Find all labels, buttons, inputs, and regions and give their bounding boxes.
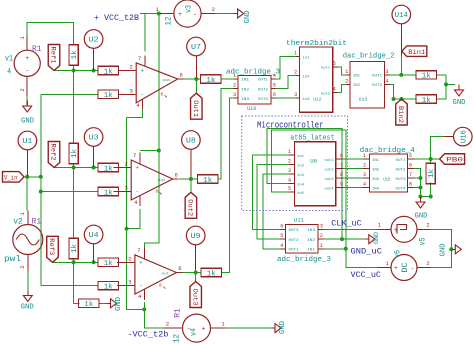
svg-text:out: out bbox=[163, 79, 171, 83]
svg-text:1k: 1k bbox=[203, 177, 212, 185]
svg-text:R1: R1 bbox=[174, 308, 183, 318]
svg-text:1k: 1k bbox=[206, 77, 215, 85]
svg-text:3: 3 bbox=[130, 87, 133, 94]
svg-text:1k: 1k bbox=[71, 244, 79, 253]
svg-text:Bin1: Bin1 bbox=[408, 49, 425, 57]
svg-text:U7: U7 bbox=[191, 44, 201, 52]
svg-text:8: 8 bbox=[340, 172, 343, 178]
svg-text:R1: R1 bbox=[32, 218, 42, 227]
svg-text:R1: R1 bbox=[32, 45, 42, 54]
svg-text:OUT2: OUT2 bbox=[396, 168, 406, 172]
svg-text:GND_uC: GND_uC bbox=[351, 247, 383, 257]
svg-text:5: 5 bbox=[288, 186, 291, 192]
svg-text:IN2: IN2 bbox=[372, 168, 379, 172]
svg-text:9: 9 bbox=[340, 182, 343, 188]
svg-text:Ref2: Ref2 bbox=[49, 144, 57, 161]
svg-text:6: 6 bbox=[280, 223, 283, 229]
svg-text:OUT3: OUT3 bbox=[258, 98, 268, 102]
svg-text:out: out bbox=[158, 179, 166, 183]
svg-text:Ref3: Ref3 bbox=[47, 238, 55, 255]
svg-text:1: 1 bbox=[294, 51, 297, 57]
svg-text:-VCC_t2b: -VCC_t2b bbox=[127, 330, 168, 340]
svg-text:U11: U11 bbox=[294, 217, 305, 224]
svg-text:1: 1 bbox=[320, 243, 323, 249]
svg-text:IN1: IN1 bbox=[307, 249, 315, 253]
svg-text:Out3: Out3 bbox=[190, 289, 198, 306]
svg-text:out1: out1 bbox=[321, 67, 330, 71]
svg-text:3: 3 bbox=[288, 168, 291, 174]
svg-text:U6: U6 bbox=[310, 159, 317, 165]
svg-text:2: 2 bbox=[426, 260, 429, 267]
svg-text:1k: 1k bbox=[422, 97, 431, 105]
svg-text:GND: GND bbox=[415, 213, 428, 221]
svg-text:OUT4: OUT4 bbox=[396, 187, 406, 191]
svg-text:1k: 1k bbox=[422, 73, 431, 81]
svg-text:-: - bbox=[140, 91, 144, 98]
svg-text:OUT3: OUT3 bbox=[289, 229, 299, 233]
svg-text:+: + bbox=[135, 165, 139, 172]
svg-text:2: 2 bbox=[345, 78, 348, 84]
svg-text:3: 3 bbox=[363, 172, 366, 178]
svg-text:GND: GND bbox=[21, 304, 34, 312]
svg-text:v4: v4 bbox=[189, 328, 198, 336]
svg-text:PB0: PB0 bbox=[446, 157, 463, 165]
svg-text:1: 1 bbox=[288, 149, 291, 155]
svg-text:-: - bbox=[135, 189, 139, 196]
svg-text:4: 4 bbox=[7, 67, 11, 76]
svg-text:v5: v5 bbox=[418, 237, 427, 245]
svg-text:5: 5 bbox=[273, 83, 276, 89]
svg-text:IN1: IN1 bbox=[353, 75, 360, 79]
svg-text:2: 2 bbox=[19, 265, 26, 268]
svg-text:7: 7 bbox=[340, 163, 343, 169]
svg-text:1: 1 bbox=[233, 73, 236, 79]
svg-text:IN3: IN3 bbox=[307, 229, 315, 233]
svg-text:U15: U15 bbox=[383, 177, 391, 183]
svg-text:4: 4 bbox=[385, 78, 388, 84]
svg-text:8: 8 bbox=[409, 182, 412, 188]
svg-text:OUT1: OUT1 bbox=[372, 75, 382, 79]
svg-text:1: 1 bbox=[345, 69, 348, 75]
svg-text:2: 2 bbox=[320, 233, 323, 239]
svg-text:+ VCC_t2B: + VCC_t2B bbox=[94, 13, 139, 23]
svg-text:out1: out1 bbox=[325, 159, 334, 163]
svg-text:in5: in5 bbox=[297, 191, 304, 196]
svg-text:out2: out2 bbox=[321, 92, 330, 96]
svg-text:12: 12 bbox=[165, 16, 174, 25]
svg-text:GND: GND bbox=[440, 244, 448, 257]
svg-text:4: 4 bbox=[333, 87, 336, 93]
svg-text:out2: out2 bbox=[325, 168, 334, 172]
svg-text:12: 12 bbox=[173, 334, 182, 343]
svg-text:2: 2 bbox=[166, 321, 169, 328]
svg-text:U12: U12 bbox=[313, 99, 322, 103]
svg-text:GND: GND bbox=[453, 99, 466, 107]
svg-text:Bin2: Bin2 bbox=[396, 106, 404, 123]
svg-text:4: 4 bbox=[280, 243, 283, 249]
svg-text:+: + bbox=[25, 55, 29, 62]
svg-text:4: 4 bbox=[363, 182, 366, 188]
svg-text:7: 7 bbox=[409, 172, 412, 178]
svg-text:+: + bbox=[139, 260, 143, 267]
svg-text:7: 7 bbox=[133, 152, 136, 159]
svg-text:adc_bridge_3: adc_bridge_3 bbox=[277, 256, 331, 264]
svg-text:U3: U3 bbox=[89, 135, 100, 143]
svg-text:3: 3 bbox=[128, 279, 131, 286]
svg-text:in2: in2 bbox=[303, 74, 310, 79]
svg-text:2: 2 bbox=[212, 6, 215, 13]
svg-text:-: - bbox=[139, 283, 143, 290]
svg-text:1k: 1k bbox=[104, 260, 113, 268]
svg-text:U13: U13 bbox=[359, 96, 368, 102]
svg-text:1k: 1k bbox=[104, 92, 113, 100]
svg-text:GND: GND bbox=[244, 11, 252, 24]
svg-text:5: 5 bbox=[280, 233, 283, 239]
svg-text:+: + bbox=[178, 11, 182, 18]
svg-text:1k: 1k bbox=[104, 68, 113, 76]
svg-text:IN2: IN2 bbox=[241, 88, 249, 92]
svg-text:VCC_uC: VCC_uC bbox=[351, 270, 382, 280]
svg-text:5: 5 bbox=[409, 153, 412, 159]
svg-text:3: 3 bbox=[385, 69, 388, 75]
svg-text:OUT2: OUT2 bbox=[258, 88, 268, 92]
svg-text:Out2: Out2 bbox=[185, 199, 193, 216]
svg-text:Ref1: Ref1 bbox=[49, 47, 57, 64]
svg-text:2: 2 bbox=[128, 255, 131, 262]
svg-text:2: 2 bbox=[233, 83, 236, 89]
svg-text:IN3: IN3 bbox=[372, 178, 379, 182]
svg-text:CLK_uC: CLK_uC bbox=[331, 219, 362, 229]
svg-text:v2: v2 bbox=[13, 218, 23, 227]
svg-text:OUT1: OUT1 bbox=[258, 79, 268, 83]
svg-text:GND: GND bbox=[21, 118, 34, 126]
svg-text:Out1: Out1 bbox=[191, 100, 199, 117]
svg-text:in1: in1 bbox=[297, 154, 304, 159]
svg-text:3: 3 bbox=[320, 223, 323, 229]
svg-text:V_in: V_in bbox=[4, 174, 18, 182]
svg-text:in3: in3 bbox=[297, 173, 304, 178]
svg-text:1k: 1k bbox=[71, 50, 79, 59]
svg-text:out4: out4 bbox=[325, 187, 334, 191]
svg-text:-: - bbox=[25, 68, 29, 75]
svg-text:DC: DC bbox=[401, 262, 410, 272]
svg-text:IN1: IN1 bbox=[372, 159, 379, 163]
svg-text:U1: U1 bbox=[22, 138, 33, 146]
svg-text:U14: U14 bbox=[395, 12, 408, 20]
svg-text:1k: 1k bbox=[71, 149, 79, 158]
svg-text:7: 7 bbox=[138, 55, 141, 62]
svg-text:IN2: IN2 bbox=[307, 239, 315, 243]
svg-text:2: 2 bbox=[19, 88, 26, 91]
svg-text:2: 2 bbox=[130, 63, 133, 70]
svg-text:U10: U10 bbox=[247, 105, 256, 112]
svg-text:GND: GND bbox=[373, 232, 380, 244]
svg-text:OUT3: OUT3 bbox=[396, 178, 406, 182]
svg-text:U2: U2 bbox=[89, 37, 99, 45]
svg-text:in1: in1 bbox=[303, 55, 310, 60]
svg-text:4: 4 bbox=[288, 178, 291, 184]
svg-text:out: out bbox=[161, 273, 169, 277]
svg-text:v1: v1 bbox=[5, 55, 13, 64]
svg-text:U16: U16 bbox=[461, 130, 469, 143]
svg-text:1k: 1k bbox=[104, 189, 113, 197]
svg-text:5: 5 bbox=[333, 61, 336, 67]
svg-text:6: 6 bbox=[409, 163, 412, 169]
svg-text:6: 6 bbox=[273, 92, 276, 98]
svg-text:6: 6 bbox=[175, 172, 178, 179]
svg-text:in3: in3 bbox=[303, 97, 310, 102]
svg-text:IN2: IN2 bbox=[353, 84, 360, 88]
svg-text:out3: out3 bbox=[325, 178, 334, 182]
svg-text:1k: 1k bbox=[104, 283, 113, 291]
svg-text:IN1: IN1 bbox=[241, 79, 249, 83]
svg-text:U8: U8 bbox=[186, 138, 196, 146]
svg-text:in4: in4 bbox=[297, 182, 304, 187]
svg-text:dac_bridge_4: dac_bridge_4 bbox=[360, 147, 416, 155]
svg-text:IN3: IN3 bbox=[241, 98, 249, 102]
svg-text:1k: 1k bbox=[428, 169, 436, 178]
svg-text:3: 3 bbox=[233, 92, 236, 98]
svg-text:pwl: pwl bbox=[4, 254, 21, 264]
svg-text:therm2bin2bit: therm2bin2bit bbox=[286, 40, 347, 48]
svg-text:6: 6 bbox=[180, 72, 183, 79]
svg-text:v6: v6 bbox=[394, 250, 403, 258]
svg-text:GND: GND bbox=[115, 297, 123, 311]
svg-text:GND: GND bbox=[279, 321, 287, 334]
svg-text:1k: 1k bbox=[207, 270, 216, 278]
svg-text:6: 6 bbox=[178, 265, 181, 272]
svg-text:2: 2 bbox=[125, 161, 128, 168]
svg-text:7: 7 bbox=[137, 247, 140, 254]
svg-text:2: 2 bbox=[426, 222, 429, 229]
svg-text:6: 6 bbox=[340, 153, 343, 159]
svg-text:2: 2 bbox=[288, 159, 291, 165]
svg-text:+: + bbox=[202, 326, 206, 333]
svg-text:+: + bbox=[394, 265, 398, 272]
svg-text:1: 1 bbox=[363, 153, 366, 159]
svg-text:+: + bbox=[140, 68, 144, 75]
svg-text:-: - bbox=[193, 11, 197, 18]
svg-text:3: 3 bbox=[294, 92, 297, 98]
svg-text:1k: 1k bbox=[104, 165, 113, 173]
svg-text:U9: U9 bbox=[191, 233, 201, 241]
svg-text:4: 4 bbox=[273, 73, 276, 79]
svg-text:OUT2: OUT2 bbox=[289, 239, 299, 243]
svg-text:OUT1: OUT1 bbox=[289, 249, 299, 253]
svg-text:U4: U4 bbox=[89, 232, 100, 240]
svg-text:dac_bridge_2: dac_bridge_2 bbox=[343, 53, 395, 61]
svg-text:in2: in2 bbox=[297, 163, 304, 168]
svg-text:v3: v3 bbox=[185, 5, 194, 13]
svg-text:2: 2 bbox=[363, 163, 366, 169]
svg-text:OUT1: OUT1 bbox=[396, 159, 406, 163]
svg-text:at85_latest: at85_latest bbox=[290, 134, 334, 142]
svg-text:Microcontroller: Microcontroller bbox=[257, 121, 324, 131]
svg-text:1k: 1k bbox=[84, 301, 93, 309]
svg-text:OUT2: OUT2 bbox=[372, 84, 382, 88]
svg-text:2: 2 bbox=[294, 70, 297, 76]
svg-text:-: - bbox=[411, 265, 415, 272]
svg-text:3: 3 bbox=[125, 185, 128, 192]
svg-text:IN4: IN4 bbox=[372, 187, 379, 191]
